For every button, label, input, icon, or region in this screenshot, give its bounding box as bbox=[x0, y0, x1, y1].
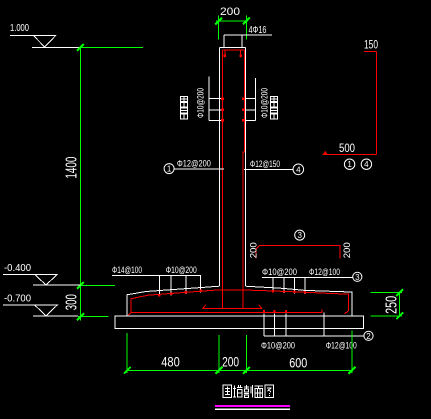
svg-text:4: 4 bbox=[296, 165, 301, 174]
wall vertical rebar right (with lap jog at y=152) bbox=[243, 50, 244, 309]
svg-text:3: 3 bbox=[355, 273, 360, 282]
wall top rebar bar bbox=[222, 49, 244, 51]
title underline magenta bbox=[215, 405, 290, 407]
elevation marker -0.400 bbox=[3, 263, 115, 285]
wall coping cap outline bbox=[219, 35, 245, 48]
elevation marker 1.000 bbox=[10, 23, 81, 48]
wall vertical rebar left bbox=[221, 50, 223, 309]
labels phi14@100 phi10@200 footing left with leader bbox=[112, 265, 202, 296]
svg-text:600: 600 bbox=[289, 354, 307, 370]
title 围墙剖面图 bbox=[223, 385, 274, 398]
svg-text:Φ12@150: Φ12@150 bbox=[250, 159, 280, 170]
svg-text:200: 200 bbox=[248, 242, 259, 258]
footing sloped block outline bbox=[127, 286, 352, 316]
callout circle 1 with label phi12@200 bbox=[164, 159, 224, 174]
rebar bracket bar (toe top bars) bbox=[256, 246, 340, 259]
callout circle 4 (detail) bbox=[361, 159, 371, 169]
svg-text:Φ10@200: Φ10@200 bbox=[166, 265, 197, 276]
footing top rebar bbox=[131, 290, 349, 313]
svg-text:4Φ16: 4Φ16 bbox=[249, 25, 267, 36]
svg-text:Φ14@100: Φ14@100 bbox=[112, 265, 142, 276]
svg-text:4: 4 bbox=[364, 160, 369, 169]
elevation marker -0.700 bbox=[3, 294, 109, 317]
svg-text:Φ10@200: Φ10@200 bbox=[259, 88, 269, 118]
rebar bend detail 150/500 top right bbox=[323, 40, 379, 156]
svg-text:-0.700: -0.700 bbox=[4, 294, 31, 305]
callout circle 3 top bbox=[295, 230, 305, 240]
char mian bbox=[255, 386, 264, 398]
svg-text:1: 1 bbox=[167, 165, 172, 174]
svg-text:1: 1 bbox=[347, 160, 352, 169]
char wei bbox=[223, 385, 232, 398]
svg-text:480: 480 bbox=[161, 354, 180, 370]
bottom slab outline bbox=[115, 316, 364, 328]
wall outline right edge bbox=[244, 48, 246, 287]
svg-text:200: 200 bbox=[342, 242, 353, 258]
char tu bbox=[265, 385, 274, 398]
dimension 1400 vertical line bbox=[63, 44, 143, 320]
svg-text:500: 500 bbox=[339, 143, 355, 155]
svg-text:Φ10@200: Φ10@200 bbox=[262, 267, 297, 278]
label outer face text 围墙外侧 bbox=[181, 97, 188, 119]
label inner face text 围墙内侧 bbox=[271, 97, 278, 119]
dimension 200 top of wall bbox=[215, 6, 250, 40]
wall outline left edge bbox=[218, 48, 220, 287]
svg-text:250: 250 bbox=[384, 296, 401, 314]
svg-text:3: 3 bbox=[297, 231, 302, 240]
svg-text:1400: 1400 bbox=[63, 157, 80, 179]
callout circle 1 (detail) bbox=[344, 159, 354, 169]
wall anchorage bottom bar with hooks bbox=[203, 305, 263, 309]
footing bottom rebar bbox=[128, 310, 348, 316]
label 4phi16 with leader bbox=[224, 25, 272, 36]
4phi16 hook bars with dots bbox=[224, 50, 242, 58]
char pou bbox=[244, 385, 253, 398]
svg-text:Φ12@100: Φ12@100 bbox=[309, 267, 340, 278]
leader line left distribution bars bbox=[209, 77, 221, 121]
svg-text:-0.400: -0.400 bbox=[4, 263, 31, 274]
char qiang bbox=[233, 385, 243, 398]
svg-text:Φ10@200: Φ10@200 bbox=[195, 88, 205, 118]
svg-text:2: 2 bbox=[366, 332, 371, 341]
dimension 250 right bbox=[371, 289, 403, 319]
title underline white bbox=[215, 408, 290, 410]
leader line right distribution bars bbox=[246, 78, 256, 120]
svg-text:1.000: 1.000 bbox=[10, 23, 29, 34]
svg-text:Φ12@200: Φ12@200 bbox=[177, 159, 211, 170]
bottom dimension chain 480/200/600 bbox=[124, 331, 356, 374]
labels phi10@200 phi12@100 with leader to circle 3 bbox=[262, 267, 362, 294]
labels phi10@200 phi12@100 bottom with leader to circle 2 bbox=[261, 310, 373, 351]
svg-text:300: 300 bbox=[64, 294, 81, 310]
callout circle 4 with label phi12@150 bbox=[244, 159, 304, 175]
svg-text:200: 200 bbox=[222, 354, 239, 370]
svg-text:200: 200 bbox=[220, 6, 240, 18]
rebar dots right face bbox=[242, 97, 245, 121]
svg-text:150: 150 bbox=[364, 40, 378, 52]
rebar dots left face bbox=[221, 97, 224, 121]
svg-text:Φ10@200: Φ10@200 bbox=[261, 340, 295, 351]
